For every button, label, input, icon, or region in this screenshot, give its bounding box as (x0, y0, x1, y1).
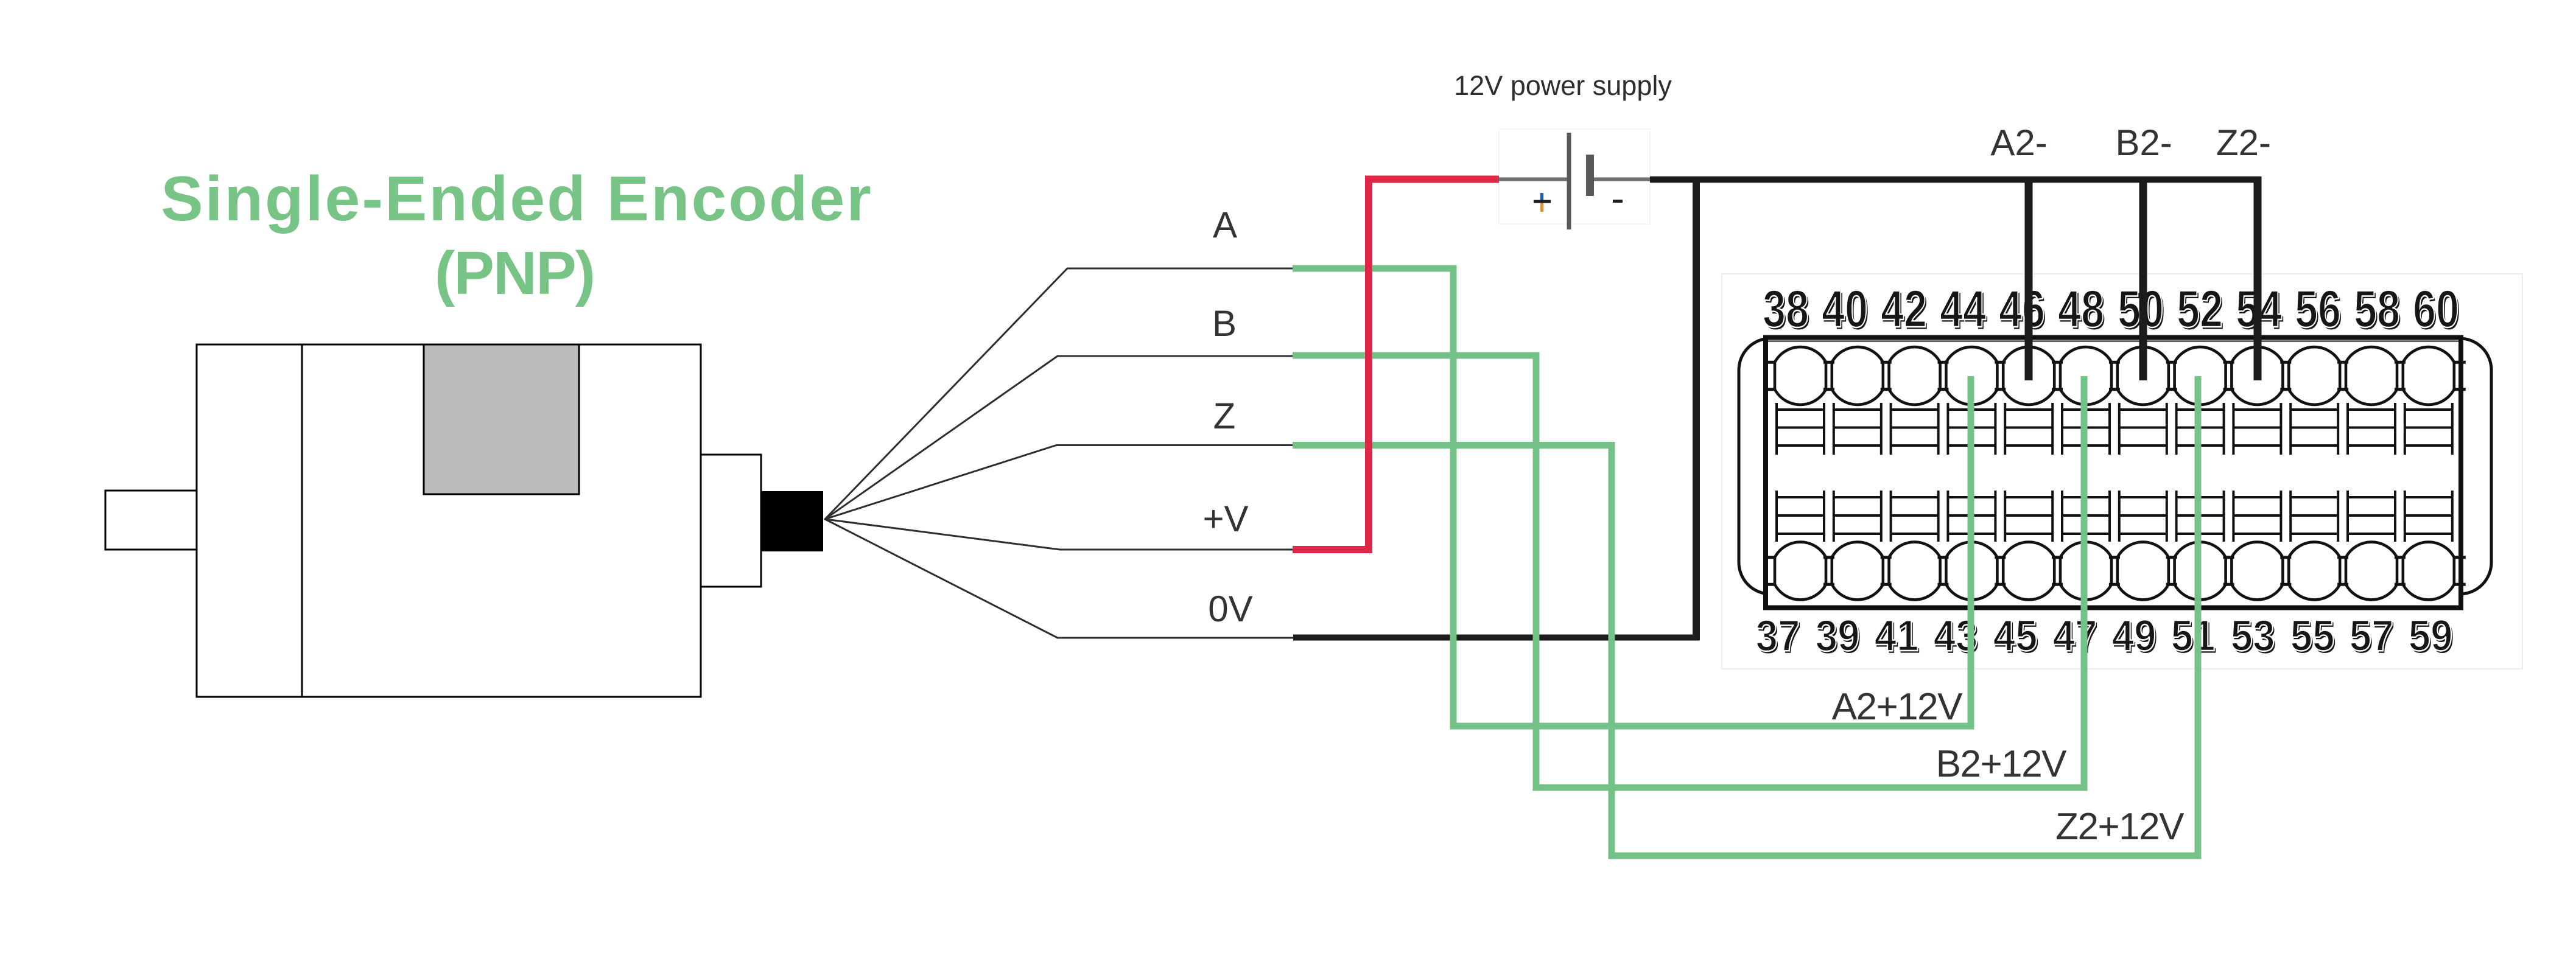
clamp cage column 42/41 (1890, 403, 1892, 455)
pin 37 contact circle (1775, 542, 1826, 600)
encoder rear flange (701, 455, 761, 587)
clamp cage column 46/45 (2004, 403, 2006, 455)
svg-text:51: 51 (2171, 612, 2216, 660)
encoder shaft (105, 491, 197, 550)
svg-text:48: 48 (2058, 280, 2104, 338)
wire fan lead Z (825, 446, 1293, 520)
svg-text:57: 57 (2350, 612, 2394, 660)
connector main body rectangle (1766, 338, 2461, 608)
pin 59 contact circle (2403, 542, 2454, 600)
svg-text:56: 56 (2295, 280, 2341, 338)
battery minus sign (1613, 200, 1623, 203)
connector outer rounded ears (1739, 338, 2491, 594)
svg-text:Single-Ended Encoder: Single-Ended Encoder (161, 164, 872, 234)
battery negative plate (short) (1586, 155, 1594, 196)
pin tab between top circles 6 (2109, 361, 2120, 364)
pin 45 contact circle (2003, 542, 2054, 600)
pin 56 contact circle (2289, 347, 2340, 405)
svg-text:49: 49 (2112, 612, 2157, 660)
wire B2- vertical to pin 50 (2139, 180, 2147, 380)
pin tab between bottom circles 12 (2455, 556, 2466, 559)
pin 55 contact circle (2289, 542, 2340, 600)
wire B green to pin 48 (1293, 355, 2084, 788)
pin tab between top circles 7 (2166, 361, 2177, 364)
pin 47 contact circle (2060, 542, 2111, 600)
svg-text:44: 44 (1940, 280, 1986, 338)
wire battery-negative junction vertical (1693, 177, 1700, 640)
pin tab between top circles 2 (1881, 361, 1892, 364)
pin 50 contact circle (2118, 347, 2169, 405)
pin tab between top circles 11 (2395, 361, 2406, 364)
clamp cage column 38/37 (1775, 403, 1778, 455)
clamp cage column 54/53 (2232, 403, 2234, 455)
clamp cage column 44/43 (1946, 403, 1949, 455)
pin tab between bottom circles 9 (2280, 556, 2291, 559)
battery positive plate (long) (1567, 133, 1571, 229)
pin 51 contact circle (2175, 542, 2226, 600)
svg-text:Z2+12V: Z2+12V (2055, 806, 2185, 848)
connector image background box (1722, 274, 2522, 669)
pin tab between bottom circles 11 (2395, 556, 2406, 559)
svg-text:58: 58 (2354, 280, 2400, 338)
encoder body (197, 344, 701, 697)
clamp cage column 48/47 (2061, 403, 2063, 455)
pin 60 contact circle (2403, 347, 2454, 405)
pin tab between top circles 4 (1995, 361, 2006, 364)
battery lead left (1499, 178, 1567, 181)
clamp cage column 60/59 (2404, 403, 2406, 455)
wire battery negative to connector horizontal (1650, 176, 2261, 183)
encoder gray window (424, 344, 579, 494)
svg-text:A2-: A2- (1990, 122, 2047, 163)
pin tab between top circles 12 (2455, 361, 2466, 364)
wire fan lead B (825, 356, 1293, 519)
wire Z2- vertical to pin 54 (2254, 176, 2262, 380)
pin tab between bottom circles 3 (1938, 556, 1949, 559)
pin tab between bottom circles 4 (1995, 556, 2006, 559)
wire fan lead 0V (825, 519, 1293, 638)
pin tab between bottom circles 2 (1881, 556, 1892, 559)
wire +V red to battery positive (1293, 180, 1499, 550)
pin tab between top circles 5 (2052, 361, 2063, 364)
connector inner thin top line (1768, 341, 2458, 342)
pin 53 contact circle (2231, 542, 2283, 600)
pin tab between top circles 8 (2223, 361, 2234, 364)
pin 46 contact circle (2003, 347, 2054, 405)
pin tab between top circles 0 (1763, 361, 1774, 364)
svg-text:B2-: B2- (2115, 122, 2172, 163)
clamp cage column 58/57 (2346, 403, 2349, 455)
pin 38 contact circle (1775, 347, 1826, 405)
pin tab between bottom circles 1 (1823, 556, 1834, 559)
clamp cage column 50/49 (2118, 403, 2121, 455)
wire Z green to pin 52 (1293, 376, 2198, 856)
battery background box (1499, 129, 1650, 224)
pin tab between bottom circles 5 (2052, 556, 2063, 559)
pin 39 contact circle (1832, 542, 1883, 600)
pin 58 contact circle (2346, 347, 2397, 405)
wire 0V black horizontal (1293, 635, 1699, 641)
pin tab between bottom circles 6 (2109, 556, 2120, 559)
svg-text:(PNP): (PNP) (435, 239, 594, 307)
svg-text:46: 46 (1999, 280, 2045, 338)
wire A2- vertical to pin 46 (2025, 180, 2033, 380)
pin tab between bottom circles 0 (1763, 556, 1774, 559)
svg-text:B: B (1212, 303, 1237, 344)
pin tab between bottom circles 8 (2223, 556, 2234, 559)
pin 42 contact circle (1889, 347, 1940, 405)
pin 40 contact circle (1832, 347, 1883, 405)
pin 48 contact circle (2060, 347, 2111, 405)
svg-text:0V: 0V (1208, 589, 1252, 629)
svg-text:60: 60 (2413, 280, 2459, 338)
svg-text:42: 42 (1881, 280, 1927, 338)
svg-text:40: 40 (1822, 280, 1868, 338)
svg-text:B2+12V: B2+12V (1936, 743, 2068, 785)
svg-text:53: 53 (2231, 612, 2275, 660)
pin tab between top circles 9 (2280, 361, 2291, 364)
pin 43 contact circle (1946, 542, 1997, 600)
svg-text:38: 38 (1763, 280, 1809, 338)
pin 49 contact circle (2118, 542, 2169, 600)
pin 44 contact circle (1946, 347, 1997, 405)
battery lead right (1594, 178, 1651, 181)
encoder body divider line (301, 344, 303, 697)
svg-text:A2+12V: A2+12V (1832, 686, 1964, 728)
svg-text:55: 55 (2290, 612, 2335, 660)
wire fan lead +V (825, 519, 1293, 550)
svg-text:39: 39 (1816, 612, 1860, 660)
pin tab between bottom circles 10 (2337, 556, 2348, 559)
svg-text:12V power supply: 12V power supply (1454, 70, 1672, 101)
pin tab between top circles 3 (1938, 361, 1949, 364)
pin tab between bottom circles 7 (2166, 556, 2177, 559)
pin 41 contact circle (1889, 542, 1940, 600)
svg-text:47: 47 (2053, 612, 2097, 660)
pin 54 contact circle (2231, 347, 2283, 405)
clamp cage column 52/51 (2175, 403, 2178, 455)
svg-text:41: 41 (1875, 612, 1919, 660)
svg-text:A: A (1213, 204, 1237, 245)
wire fan lead A (825, 268, 1293, 519)
pin 52 contact circle (2175, 347, 2226, 405)
svg-text:45: 45 (1993, 612, 2038, 660)
pin tab between top circles 10 (2337, 361, 2348, 364)
svg-text:Z2-: Z2- (2216, 122, 2271, 163)
clamp cage column 56/55 (2289, 403, 2292, 455)
clamp cage column 40/39 (1833, 403, 1835, 455)
wire A green to pin 44 (1293, 268, 1971, 726)
svg-text:52: 52 (2177, 280, 2223, 338)
battery plus sign (1534, 193, 1551, 212)
svg-text:37: 37 (1756, 612, 1800, 660)
encoder cable gland (black block) (761, 491, 823, 551)
svg-text:+V: +V (1202, 498, 1248, 539)
pin tab between top circles 1 (1823, 361, 1834, 364)
pin 57 contact circle (2346, 542, 2397, 600)
svg-text:59: 59 (2409, 612, 2453, 660)
svg-text:Z: Z (1213, 396, 1236, 436)
